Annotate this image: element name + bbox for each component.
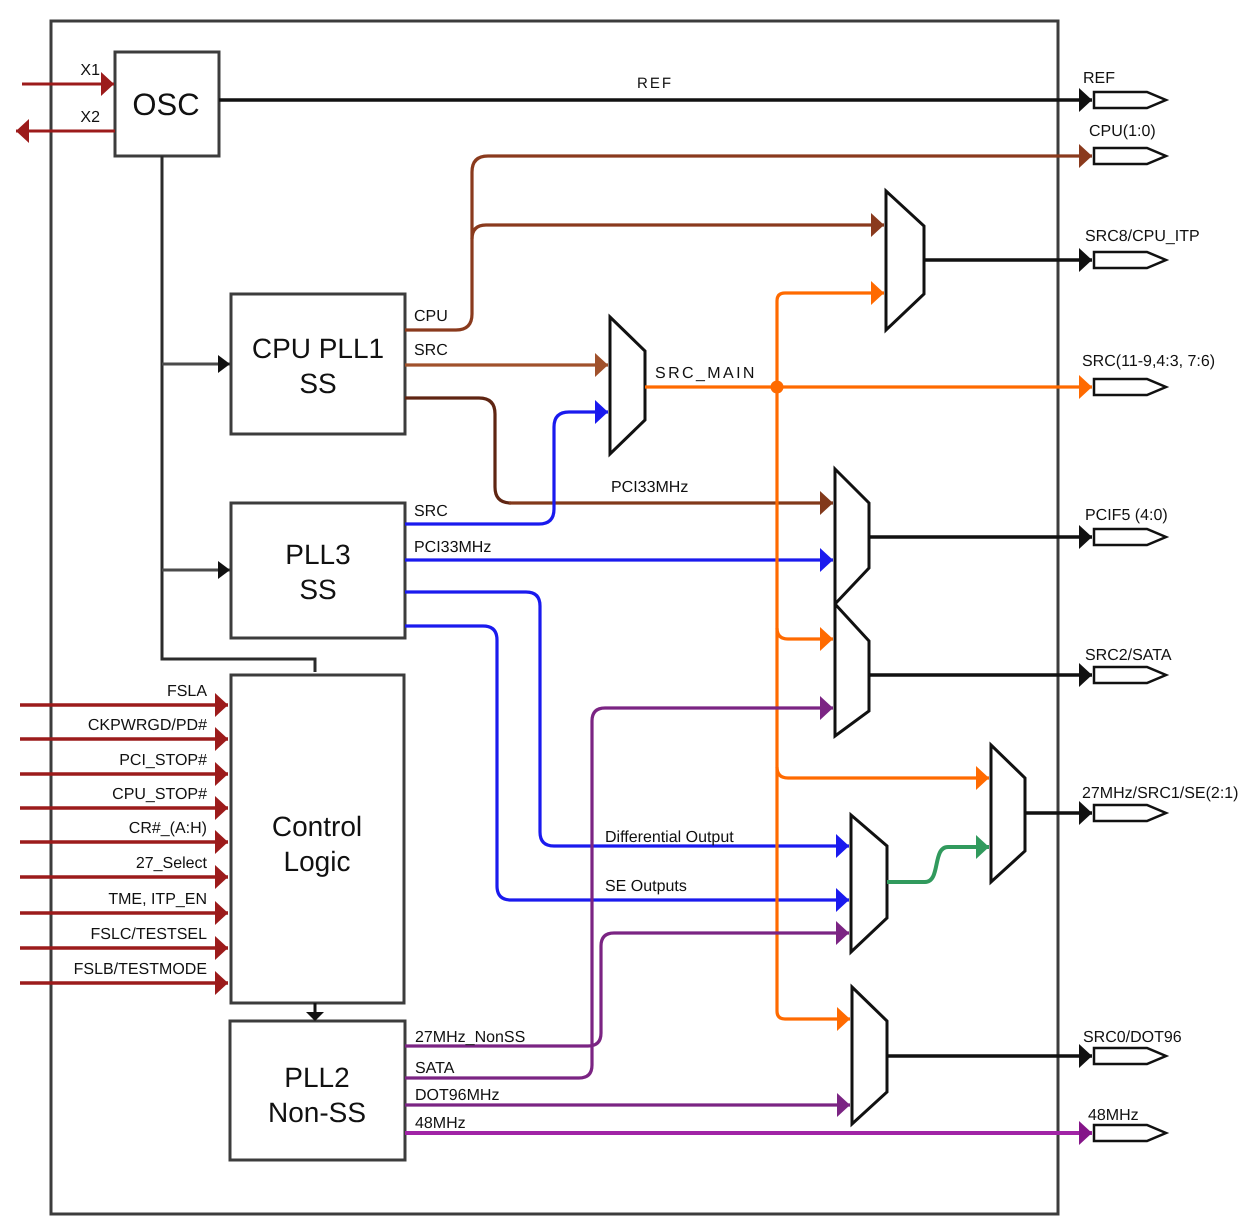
wire green SE to M5 [887,847,989,882]
svg-text:CPU(1:0): CPU(1:0) [1089,123,1156,140]
block PLL3 SS [231,503,405,638]
svg-text:PLL3: PLL3 [285,539,350,570]
svg-text:FSLB/TESTMODE: FSLB/TESTMODE [74,961,207,978]
block CPU PLL1 SS [231,294,405,434]
svg-text:OSC: OSC [132,87,199,122]
block Control Logic [231,675,404,1003]
svg-text:SS: SS [299,574,336,605]
wire mux M5 out [1025,811,1092,815]
svg-text:REF: REF [1083,70,1115,87]
wire CPU branch to mux SRC8 [472,225,884,239]
svg-text:27MHz/SRC1/SE(2:1): 27MHz/SRC1/SE(2:1) [1082,785,1239,802]
svg-text:DOT96MHz: DOT96MHz [415,1087,499,1104]
wire purple DOT96MHz to mux M7 [405,1103,850,1106]
svg-text:SRC_MAIN: SRC_MAIN [655,365,757,382]
mux M3 PCIF [835,469,869,604]
wire PLL3 PCI33MHz to PCIF mux [405,539,833,560]
svg-text:27MHz_NonSS: 27MHz_NonSS [415,1029,525,1046]
wire magenta 48MHz [405,1131,1092,1135]
wire OSC to Control Logic [162,156,315,672]
svg-text:TME, ITP_EN: TME, ITP_EN [108,891,207,908]
pin FSLA [20,703,228,707]
wire PLL3 SRC to SRC_MAIN mux [405,412,608,524]
svg-text:SRC0/DOT96: SRC0/DOT96 [1083,1029,1182,1046]
pin 27_Select [20,875,228,879]
junction SRC_MAIN node [771,381,784,394]
svg-text:REF: REF [637,75,673,92]
pad PCIF5 (4:0) [1094,529,1166,545]
svg-text:SATA: SATA [415,1060,455,1077]
svg-text:X1: X1 [80,62,100,79]
svg-text:SS: SS [299,368,336,399]
svg-text:PCI33MHz: PCI33MHz [414,539,491,556]
svg-text:PCI33MHz: PCI33MHz [611,479,688,496]
pad REF [1094,92,1166,108]
wire OSC to PLL3 [162,569,230,572]
svg-text:CKPWRGD/PD#: CKPWRGD/PD# [88,717,207,734]
mux M5 27MHz/SRC1 [991,745,1025,882]
mux M4 SRC2/SATA [835,604,869,736]
mux M2 SRC8 [886,191,924,330]
PLL2 output labels [415,1029,525,1132]
pad 27MHz/SRC1/SE(2:1) [1094,805,1166,821]
svg-text:SRC2/SATA: SRC2/SATA [1085,647,1172,664]
wire purple SATA to SRC2 mux [405,708,833,1078]
svg-text:SRC8/CPU_ITP: SRC8/CPU_ITP [1085,228,1200,245]
wire REF net [219,75,1092,100]
svg-text:PLL2: PLL2 [284,1062,349,1093]
wire SRC_MAIN branch to mux M5 [777,767,989,778]
wire mux M4 out [869,673,1092,677]
block PLL2 Non-SS [230,1021,405,1160]
svg-text:FSLA: FSLA [167,683,207,700]
wire mux M2 out [924,258,1092,262]
wire SRC_MAIN trunk down to mux M7 [777,387,850,1019]
svg-text:48MHz: 48MHz [415,1115,466,1132]
wire SRC_MAIN to SRC output [645,385,1092,388]
svg-text:SRC: SRC [414,503,448,520]
pad SRC0/DOT96 [1094,1048,1166,1064]
wire mux M3 out [869,535,1092,539]
svg-text:CR#_(A:H): CR#_(A:H) [129,820,207,837]
control inputs [20,683,228,983]
svg-text:CPU PLL1: CPU PLL1 [252,333,384,364]
pad SRC8/CPU_ITP [1094,252,1166,268]
pad CPU(1:0) [1094,148,1166,164]
pad SRC2/SATA [1094,667,1166,683]
wire SRC_MAIN branch to mux M2 [777,293,884,387]
svg-text:PCIF5 (4:0): PCIF5 (4:0) [1085,507,1168,524]
wire PLL3 differential output to SE mux [405,592,849,846]
wire SRC_MAIN branch to mux M4 [777,628,833,639]
wire Control Logic to PLL2 [314,1003,317,1013]
pin CPU_STOP# [20,806,228,810]
svg-text:FSLC/TESTSEL: FSLC/TESTSEL [91,926,208,943]
svg-text:CPU: CPU [414,308,448,325]
svg-text:Logic: Logic [284,846,351,877]
pin X2 output [16,109,115,131]
pad 48MHz [1094,1125,1166,1141]
pin FSLB/TESTMODE [20,981,228,985]
pin PCI_STOP# [20,772,228,776]
svg-text:48MHz: 48MHz [1088,1107,1139,1124]
pin CKPWRGD/PD# [20,737,228,741]
pin TME, ITP_EN [20,911,228,915]
svg-text:SE Outputs: SE Outputs [605,878,687,895]
wire CPU out of PLL1 to CPU(1:0) [405,156,1092,330]
wire mux M7 out [887,1054,1092,1058]
mux M1 SRC_MAIN [610,317,757,454]
pin FSLC/TESTSEL [20,946,228,950]
OSC U-osc [115,52,219,156]
svg-text:PCI_STOP#: PCI_STOP# [119,752,207,769]
pad SRC(11-9,4:3, 7:6) [1094,379,1166,395]
svg-text:27_Select: 27_Select [136,855,208,872]
svg-text:CPU_STOP#: CPU_STOP# [112,786,207,803]
mux M6 SE [851,815,887,952]
pin X1 input [22,62,114,84]
svg-text:Differential Output: Differential Output [605,829,734,846]
output pads right side [1082,70,1239,1141]
wire SRC out of PLL1 to SRC_MAIN mux [405,342,608,365]
pin CR#_(A:H) [20,840,228,844]
svg-text:SRC(11-9,4:3, 7:6): SRC(11-9,4:3, 7:6) [1082,353,1215,370]
chip boundary [51,21,1058,1214]
wire PLL3 SE outputs to SE mux [405,626,849,900]
wire purple 27MHz_NonSS to SE mux [405,933,849,1046]
wire OSC to CPU PLL1 [162,363,230,366]
mux M7 SRC0/DOT96 [852,987,887,1124]
wire PLL1 third output to PCIF mux (PCI33MHz) [405,398,833,503]
svg-text:Non-SS: Non-SS [268,1097,366,1128]
svg-text:SRC: SRC [414,342,448,359]
svg-text:X2: X2 [80,109,100,126]
svg-text:Control: Control [272,811,362,842]
